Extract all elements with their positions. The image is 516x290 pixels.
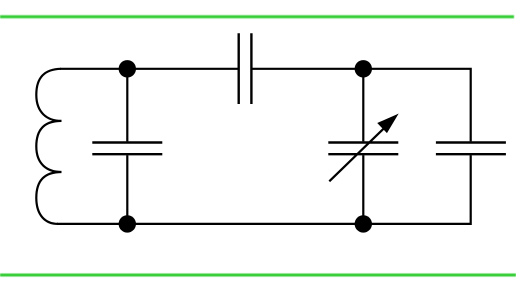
capacitor C3 (variable) bbox=[328, 143, 398, 155]
wire top-left: inductor to C2 bbox=[60, 68, 238, 70]
capacitor C4 bbox=[436, 143, 506, 155]
wire branch C3 top bbox=[362, 69, 364, 142]
inductor L1 bbox=[36, 69, 61, 224]
node C (bottom junction of L and C1) bbox=[119, 215, 136, 232]
wire branch C1 top bbox=[126, 69, 128, 142]
node D (bottom junction of C3) bbox=[355, 215, 372, 232]
wire bottom: inductor to bottom-right corner bbox=[57, 155, 471, 224]
node A (top junction of L and C1) bbox=[119, 60, 136, 77]
node B (top junction of C2 and C3) bbox=[355, 60, 372, 77]
wire branch C1 bottom bbox=[126, 155, 128, 224]
wire branch C3 bottom bbox=[362, 155, 364, 224]
wire top-right: C2 to top-right corner bbox=[253, 69, 471, 142]
arrow of variable capacitor C3 bbox=[329, 115, 396, 181]
capacitor C1 bbox=[92, 143, 162, 155]
capacitor C2 bbox=[239, 33, 252, 104]
